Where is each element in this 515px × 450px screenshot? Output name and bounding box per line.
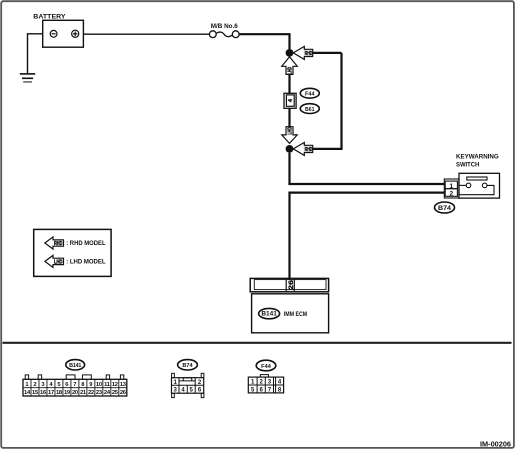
svg-text:BATTERY: BATTERY [33,14,66,21]
legend box [34,229,111,276]
wire fuse to node A [239,34,289,49]
svg-text:26: 26 [288,280,295,290]
svg-text:LHD: LHD [287,67,293,75]
connector pinout B141 label [66,360,85,370]
svg-text:SWITCH: SWITCH [456,162,480,169]
wire to key warning switch pin 1 [290,183,445,184]
svg-text:17: 17 [48,390,54,396]
connector pinout F44 body [248,375,283,394]
svg-text:10: 10 [96,382,102,388]
svg-text:IM-00206: IM-00206 [480,439,511,448]
svg-text:IMM ECM: IMM ECM [284,311,308,318]
legend arrow LHD [45,255,64,267]
svg-text:7: 7 [73,382,76,388]
wire key warning switch pin 2 to ECM pin 26 [290,193,445,280]
battery negative terminal [50,30,57,37]
key warning switch label [456,154,499,169]
svg-text:LHD: LHD [54,259,63,265]
svg-text:F44: F44 [305,91,315,97]
svg-text:2: 2 [33,382,36,388]
arrow LHD bottom [282,127,298,144]
connector pinout F44 label [256,360,276,371]
svg-text:B74: B74 [438,206,452,212]
svg-text:KEYWARNING: KEYWARNING [456,154,499,161]
battery positive terminal [72,30,79,37]
connector label F44 [300,88,319,98]
svg-text:: RHD MODEL: : RHD MODEL [66,240,106,247]
key warning switch S1 [459,173,500,198]
connector pinout B74 label [178,360,198,370]
wire inline connector to arrow LHD bottom [288,108,290,126]
wire battery positive to fuse [83,33,209,35]
arrow LHD top [282,57,298,75]
IMM ECM box [252,294,329,333]
connector label B141 [259,308,280,318]
legend arrow RHD [45,237,64,249]
ground [20,74,35,82]
svg-text:22: 22 [88,390,94,396]
node B junction [286,145,294,153]
svg-text:B141: B141 [69,363,81,369]
node A junction [286,49,294,57]
svg-text:RHD: RHD [305,51,313,57]
pin 1 [445,181,457,190]
pin 2 [445,189,457,198]
separator line [3,342,512,344]
svg-text:RHD: RHD [54,241,63,247]
wire node A to inline connector [288,74,290,93]
svg-text:20: 20 [72,390,78,396]
connector pinout B74 body [172,373,204,397]
battery B1 [43,20,84,47]
fuse M/B No.6 [209,31,239,38]
wire right branch RHD bypass [313,53,342,149]
svg-text:: LHD MODEL: : LHD MODEL [66,259,106,266]
wire node A to right branch [313,52,342,54]
connector label B61 [300,104,319,114]
svg-text:2: 2 [449,191,453,198]
svg-text:B61: B61 [305,107,315,113]
svg-text:RHD: RHD [305,147,313,153]
svg-text:12: 12 [112,382,118,388]
svg-text:F44: F44 [261,364,272,370]
svg-text:B74: B74 [182,363,193,369]
arrow RHD bottom [293,142,312,155]
svg-text:LHD: LHD [287,127,293,135]
connector pinout B141 body [23,375,127,396]
svg-text:M/B No.6: M/B No.6 [211,24,239,30]
svg-text:B141: B141 [261,312,277,318]
inline connector F44/B61 pin 4 [284,93,296,108]
arrow RHD top [293,46,312,59]
wire battery negative to ground [28,34,43,74]
connector label B74 [435,202,455,213]
pin 26 [286,278,295,291]
wire node B down [288,153,290,184]
connector B74 shell [444,179,459,198]
ECM connector strip [250,278,328,291]
